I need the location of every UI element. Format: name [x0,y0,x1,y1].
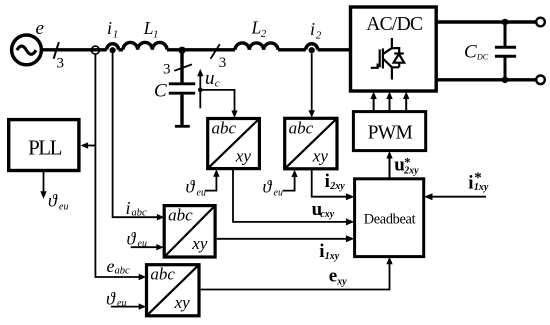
label CDC [464,42,489,63]
theta stub block3 [131,246,159,248]
wire e sense vertical [95,54,141,277]
svg-text:abc: abc [132,208,148,219]
svg-text:i: i [310,19,315,39]
wire uc to abc/xy [200,90,234,112]
label abc/xy block3 [168,206,208,253]
svg-text:ϑ: ϑ [186,177,196,197]
wire i1 sense vertical [113,53,159,217]
label theta_eu block2 [263,177,283,199]
uc sense arrow [199,76,201,109]
svg-text:Deadbeat: Deadbeat [364,212,416,228]
node i2 current tap [306,44,318,54]
svg-text:PWM: PWM [368,122,413,143]
capacitor CDC [495,22,516,80]
svg-text:xy: xy [174,293,191,312]
label i1xy* [468,170,489,194]
svg-text:e: e [329,266,337,287]
svg-text:cxy: cxy [320,209,334,220]
AC source e [12,35,42,65]
theta stub block4 [111,306,141,308]
svg-text:ϑ: ϑ [263,177,273,197]
svg-text:eu: eu [117,298,126,309]
block abc/xy 2 (i2) [285,118,337,169]
wire capacitor branch [180,52,183,83]
svg-text:i: i [325,171,330,192]
block abc/xy 4 (eabc) [147,265,200,316]
svg-text:PLL: PLL [28,136,62,160]
label i1xy [319,241,339,262]
node e tap (open circle) [91,46,99,54]
wire below capacitor [180,95,183,125]
svg-text:2xy: 2xy [329,181,345,192]
block abc/xy 1 (uc) [208,119,260,169]
label u2xy* [394,155,419,177]
inductor L2 [235,43,278,50]
wire PLL output theta [43,171,45,193]
svg-text:u: u [205,68,215,89]
theta stub block1 [205,175,217,190]
label uc [205,68,220,90]
svg-text:abc: abc [115,266,131,277]
svg-text:eu: eu [138,239,147,250]
label i1 [107,18,118,41]
svg-text:i: i [126,198,131,218]
svg-text:c: c [215,78,220,90]
block PLL [9,120,79,171]
capacitor C [169,84,195,93]
IGBT symbol [371,38,404,80]
label L1 [143,18,159,40]
wire main [42,48,351,51]
label eabc [107,256,131,277]
wire i2 sense vertical [311,53,313,112]
label i2xy [325,171,346,192]
block Deadbeat [355,179,424,257]
slash 3 phase mark 2 [211,44,220,59]
wire ucxy to Deadbeat [233,169,349,222]
block abc/xy 3 (iabc) [164,206,215,257]
label theta_eu block3 [127,229,147,250]
svg-text:ϑ: ϑ [48,191,58,211]
terminal bottom [536,76,545,85]
svg-text:eu: eu [197,188,206,199]
block PWM [353,112,425,151]
svg-text:xy: xy [191,234,208,253]
slash 3 phase mark 3 [174,64,192,70]
wire u2xy* Deadbeat to PWM [389,158,391,179]
theta stub block2 [283,175,295,190]
svg-text:ϑ: ϑ [127,229,137,249]
svg-text:3: 3 [219,55,227,71]
svg-text:3: 3 [57,55,65,71]
svg-text:abc: abc [212,119,237,138]
wire i1xy* reference into Deadbeat [430,196,486,198]
svg-text:e: e [107,256,115,276]
svg-text:DC: DC [476,53,489,62]
svg-text:C: C [464,42,477,63]
label abc/xy block1 [212,119,252,166]
svg-text:abc: abc [168,206,193,225]
svg-text:1: 1 [113,29,119,41]
svg-text:xy: xy [235,147,252,166]
inductor L1 [123,42,167,49]
label exy [329,266,348,288]
label i2 [310,19,322,42]
svg-text:eu: eu [59,202,68,213]
wire dc bottom [436,78,536,81]
label theta_eu block4 [106,289,126,310]
svg-text:1: 1 [153,29,159,41]
svg-text:xy: xy [312,147,329,166]
label abc/xy block2 [289,118,329,165]
svg-text:ϑ: ϑ [106,289,116,309]
svg-text:AC/DC: AC/DC [366,14,422,35]
wire e sense into PLL [87,145,95,147]
terminal top [536,18,545,27]
svg-text:abc: abc [289,118,314,137]
label L2 [251,18,267,41]
label abc/xy block4 [150,265,190,312]
label ucxy [312,199,335,220]
svg-text:i: i [107,18,112,38]
slash 3 phase mark 1 [54,42,59,59]
junction node [178,47,185,54]
svg-text:L: L [251,18,262,38]
svg-text:i: i [468,172,473,193]
svg-text:L: L [143,18,154,38]
svg-text:eu: eu [274,188,283,199]
label theta_eu PLL [48,191,68,213]
label theta_eu block1 [186,177,206,199]
svg-text:3: 3 [163,61,171,77]
label iabc [126,198,148,219]
gate drive arrows PWM to AC/DC [374,99,407,112]
wire exy to Deadbeat [199,262,390,289]
svg-text:C: C [154,81,167,102]
converter AC/DC [351,7,437,91]
node i1 current tap [107,44,119,54]
svg-text:abc: abc [150,265,175,284]
wire i1xy to Deadbeat [215,238,349,240]
ground [175,125,190,128]
wire i2xy to Deadbeat [312,169,349,197]
svg-text:1xy: 1xy [474,182,489,193]
svg-text:2: 2 [261,28,267,40]
svg-text:2: 2 [316,30,322,42]
svg-text:e: e [36,18,44,39]
svg-text:2xy: 2xy [403,166,419,177]
svg-text:xy: xy [336,276,347,287]
svg-text:1xy: 1xy [325,251,340,262]
wire dc top [436,20,536,23]
